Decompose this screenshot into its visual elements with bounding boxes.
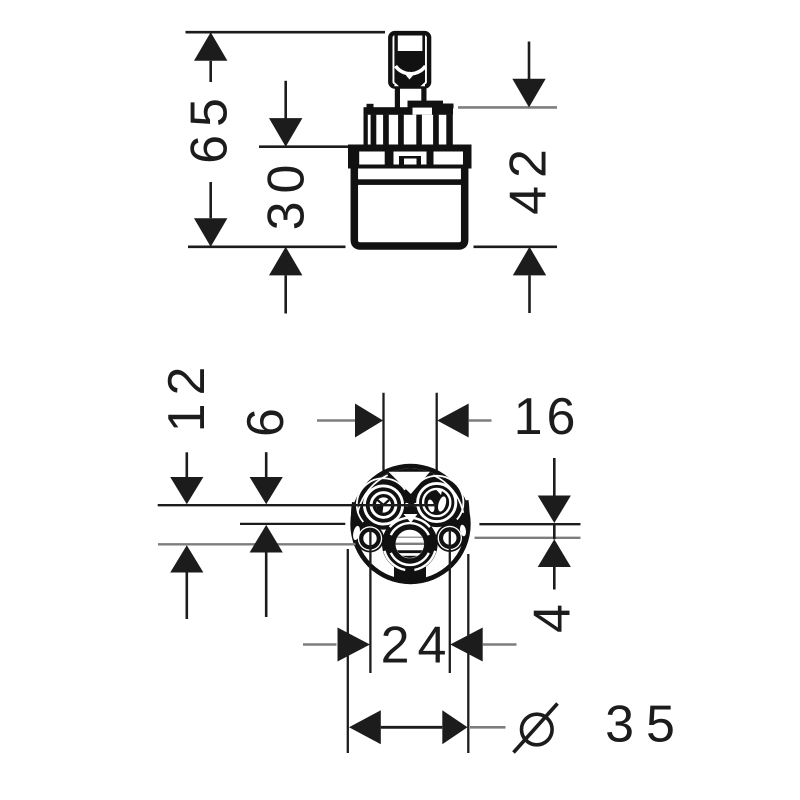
dimension 30 arrow down [269,81,302,147]
main body [351,166,468,246]
cartridge stem neck left [395,87,400,109]
webbing [351,469,470,582]
stem cap chamfer right [420,82,425,86]
dimension diameter 35 [348,549,687,754]
extension line 42 top reference [458,106,557,109]
svg-text:24: 24 [381,617,455,675]
left port rings [364,486,402,524]
bottom port rings [384,518,435,570]
top white wedge [389,472,431,494]
port extension line right (16) [436,393,438,511]
lower white wedge between ports [404,514,418,523]
spline section top band [364,101,454,115]
svg-text:35: 35 [605,696,687,754]
right port teardrop left [427,499,436,513]
dimension 65 arrow down [194,182,227,247]
right port teardrop right [436,496,447,513]
left port spoke [378,500,390,505]
cartridge stem neck right [421,87,426,103]
horizontal reference line through top ports [158,504,437,506]
svg-text:6: 6 [237,400,295,437]
svg-text:16: 16 [514,388,580,446]
right port notch [437,489,443,496]
dimension 24 [303,530,517,675]
body joint band [351,179,468,185]
small circle left pocket [358,526,382,550]
extension line 24 left [369,530,371,674]
dimension 16 right arrow [437,404,469,438]
dimension 42 arrow down [512,42,545,108]
grey line small circle level right [475,537,581,539]
svg-text:42: 42 [500,141,558,215]
dimension 6 [237,400,295,617]
side merge right [446,500,470,546]
small circle right ring [441,529,459,547]
cartridge stem cap [390,33,429,87]
extension line 24 right [449,530,451,674]
side pocket left [352,525,361,540]
horizontal centre line left [240,523,345,525]
svg-text:4: 4 [524,596,582,633]
horizontal centre line right [479,523,580,525]
dimension 16 left arrow [317,419,356,422]
rim inner sliver [358,475,388,513]
flange collar [348,145,472,169]
grey line bottom port level left [158,543,356,545]
svg-text:12: 12 [158,359,216,433]
stem ball white arc [396,66,426,74]
bottom merge [394,567,426,581]
small circle right pocket [438,526,462,550]
dimension 12 [158,359,216,619]
spline teeth [364,115,453,147]
extension line top (65 top reference) [186,31,386,34]
flange middle window [394,152,427,165]
flange window left [359,152,385,165]
port extension line left (16) [382,393,384,513]
flange window right [434,152,464,165]
left port wedge [376,504,384,512]
extension line diameter right [467,554,469,753]
stem cap inner block [394,33,425,87]
dimension 42 arrow up [513,247,546,313]
dimension 4 [524,458,582,633]
dimension 30 arrow up [269,247,302,314]
svg-text:65: 65 [181,90,239,164]
extension line diameter left [347,549,349,753]
stem ball dimple [406,72,413,80]
extension line 30 top reference [259,145,350,148]
extension line bottom-right (base reference) [474,246,558,249]
inter-port white specks [405,503,409,507]
side merge left [351,502,374,546]
upper-half webbing [355,469,466,525]
diameter symbol [522,714,553,745]
side pocket right [459,524,467,536]
small circle left ring [361,530,379,548]
outer rim [350,464,470,584]
right port outer sliver [415,476,463,520]
stem cap chamfer left [394,82,399,86]
svg-text:30: 30 [258,157,316,231]
right port rings [418,483,456,521]
dimension 65 arrow up [194,32,227,82]
bottom view circle [350,464,470,584]
extension line bottom-left (base reference) [188,246,346,249]
stem cap window [398,36,423,52]
left port outer sliver [357,478,405,522]
